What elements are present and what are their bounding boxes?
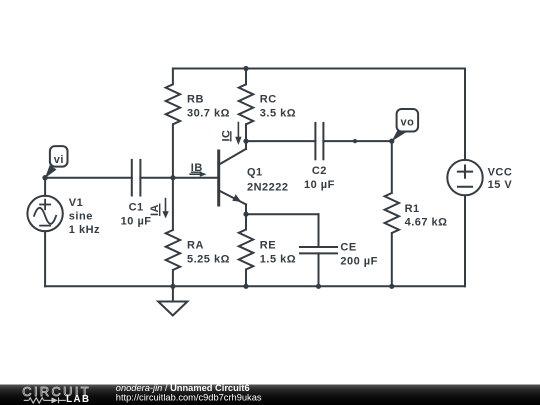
node collector xyxy=(243,139,248,144)
node junction bottom rail / R1 xyxy=(389,284,394,289)
node vi xyxy=(42,175,47,180)
wire C2 to vo node xyxy=(323,140,391,142)
svg-text:RC: RC xyxy=(260,94,277,106)
capacitor C2 xyxy=(315,123,323,159)
voltage source V1 xyxy=(27,178,62,287)
ground xyxy=(158,286,187,315)
wire input right segment xyxy=(140,177,218,179)
svg-text:200 µF: 200 µF xyxy=(340,256,377,268)
svg-text:R1: R1 xyxy=(405,203,420,215)
svg-text:http://circuitlab.com/c9db7crh: http://circuitlab.com/c9db7crh9ukas xyxy=(116,393,262,403)
transistor Q1 xyxy=(219,141,246,214)
svg-text:RA: RA xyxy=(187,239,204,251)
svg-text:RB: RB xyxy=(187,94,204,106)
node emitter xyxy=(243,212,248,217)
logo resistor-diode glyph xyxy=(24,397,66,403)
wire bottom rail xyxy=(45,285,465,287)
node junction bottom rail / CE xyxy=(316,284,321,289)
voltage source VCC xyxy=(447,69,482,287)
svg-text:vi: vi xyxy=(54,154,64,166)
svg-text:10 µF: 10 µF xyxy=(304,179,335,191)
svg-text:C1: C1 xyxy=(129,201,144,213)
resistor RB xyxy=(166,69,180,178)
node wire joint xyxy=(353,139,357,143)
label RA 5.25 kΩ xyxy=(187,239,230,265)
svg-text:Q1: Q1 xyxy=(247,167,263,179)
resistor RA xyxy=(166,178,180,287)
node vo xyxy=(389,139,394,144)
label CE 200 µF xyxy=(340,242,377,268)
net label vi xyxy=(45,146,68,178)
current label IB arrow xyxy=(190,172,206,177)
capacitor C1 xyxy=(132,160,141,196)
wire top supply rail xyxy=(173,68,465,70)
wire emitter to CE xyxy=(246,214,319,247)
svg-text:4.67 kΩ: 4.67 kΩ xyxy=(405,216,448,228)
label Q1 2N2222 xyxy=(247,167,289,194)
svg-text:1 kHz: 1 kHz xyxy=(69,224,100,236)
svg-text:VCC: VCC xyxy=(488,166,513,178)
capacitor CE xyxy=(300,247,337,286)
resistor RC xyxy=(239,69,253,142)
node junction bottom rail / RE xyxy=(243,284,248,289)
label C2 10 µF xyxy=(304,165,335,191)
label RE 1.5 kΩ xyxy=(260,239,296,265)
svg-text:2N2222: 2N2222 xyxy=(247,182,289,194)
svg-text:10 µF: 10 µF xyxy=(121,216,152,228)
current label IC arrow xyxy=(235,123,241,146)
label V1 sine 1 kHz xyxy=(69,197,100,236)
current label IA arrow xyxy=(162,199,168,219)
svg-text:1.5 kΩ: 1.5 kΩ xyxy=(260,253,296,265)
svg-text:sine: sine xyxy=(69,210,93,222)
label C1 10 µF xyxy=(121,201,152,227)
label R1 4.67 kΩ xyxy=(405,203,448,228)
wire input left segment xyxy=(45,177,132,179)
current label IB text xyxy=(191,162,203,174)
node junction top rail / RC xyxy=(243,66,248,71)
label RC 3.5 kΩ xyxy=(260,94,296,120)
svg-text:3.5 kΩ: 3.5 kΩ xyxy=(260,107,296,119)
svg-text:V1: V1 xyxy=(69,197,83,209)
svg-text:C2: C2 xyxy=(312,165,327,177)
current label IA text xyxy=(149,204,161,217)
svg-text:LAB: LAB xyxy=(66,394,90,405)
resistor R1 xyxy=(385,141,399,286)
label RB 30.7 kΩ xyxy=(187,94,230,120)
node junction bottom rail / RA / ground xyxy=(170,284,175,289)
svg-text:15 V: 15 V xyxy=(488,179,513,191)
resistor RE xyxy=(239,214,253,286)
net label vo xyxy=(392,109,419,142)
svg-text:RE: RE xyxy=(260,239,276,251)
wire collector to C2 xyxy=(246,140,315,142)
node junction C1 / RB / RA xyxy=(170,175,175,180)
current label IC text xyxy=(220,130,232,142)
label VCC 15 V xyxy=(488,166,513,191)
svg-text:5.25 kΩ: 5.25 kΩ xyxy=(187,253,230,265)
svg-text:CE: CE xyxy=(340,242,356,254)
svg-text:vo: vo xyxy=(400,116,414,128)
svg-text:30.7 kΩ: 30.7 kΩ xyxy=(187,107,230,119)
